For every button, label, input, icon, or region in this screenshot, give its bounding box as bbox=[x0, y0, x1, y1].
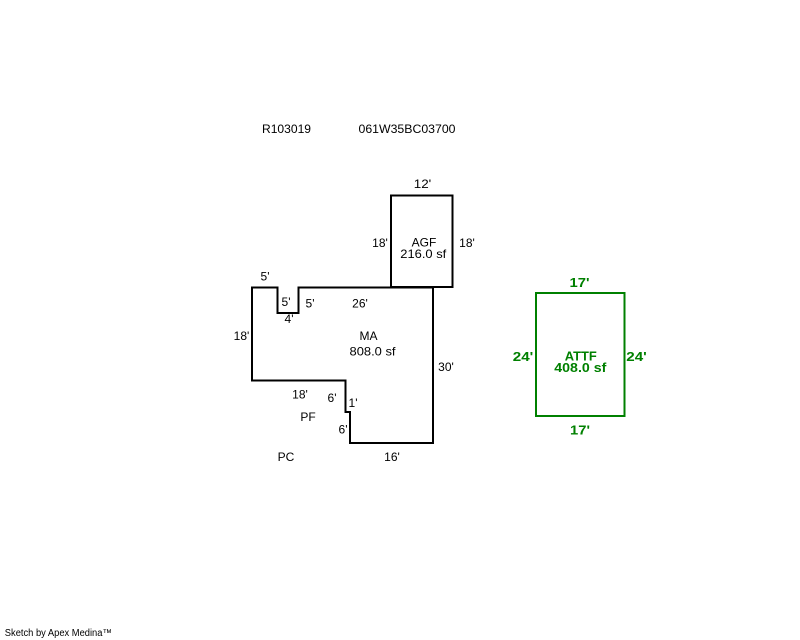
svg-text:5': 5' bbox=[306, 297, 315, 311]
svg-text:26': 26' bbox=[352, 297, 368, 311]
svg-text:1': 1' bbox=[349, 396, 358, 410]
svg-text:30': 30' bbox=[438, 360, 454, 374]
svg-text:4': 4' bbox=[285, 312, 294, 326]
svg-text:6': 6' bbox=[328, 391, 337, 405]
svg-text:12': 12' bbox=[414, 177, 432, 191]
svg-text:MA: MA bbox=[360, 329, 378, 343]
svg-text:17': 17' bbox=[570, 423, 590, 438]
svg-text:808.0 sf: 808.0 sf bbox=[350, 345, 397, 359]
area MA outline (main area) bbox=[252, 288, 433, 444]
svg-text:24': 24' bbox=[626, 349, 647, 364]
svg-text:Sketch by Apex Medina™: Sketch by Apex Medina™ bbox=[5, 628, 112, 639]
svg-text:PC: PC bbox=[278, 450, 295, 464]
svg-text:18': 18' bbox=[234, 329, 250, 343]
svg-text:16': 16' bbox=[384, 450, 400, 464]
svg-text:5': 5' bbox=[282, 295, 291, 309]
svg-text:PF: PF bbox=[300, 410, 315, 424]
svg-text:5': 5' bbox=[261, 270, 270, 284]
svg-text:24': 24' bbox=[513, 349, 534, 364]
svg-text:6': 6' bbox=[339, 423, 348, 437]
svg-text:R103019: R103019 bbox=[262, 122, 311, 136]
svg-text:18': 18' bbox=[292, 388, 308, 402]
svg-text:17': 17' bbox=[570, 275, 590, 290]
svg-text:18': 18' bbox=[459, 236, 475, 250]
svg-text:408.0 sf: 408.0 sf bbox=[554, 360, 607, 375]
svg-text:18': 18' bbox=[372, 236, 388, 250]
area AGF outline (attached garage) bbox=[391, 196, 453, 288]
svg-text:061W35BC03700: 061W35BC03700 bbox=[359, 122, 456, 136]
svg-text:216.0 sf: 216.0 sf bbox=[400, 247, 447, 261]
area ATTF outline (green detached rectangle) bbox=[536, 293, 625, 416]
